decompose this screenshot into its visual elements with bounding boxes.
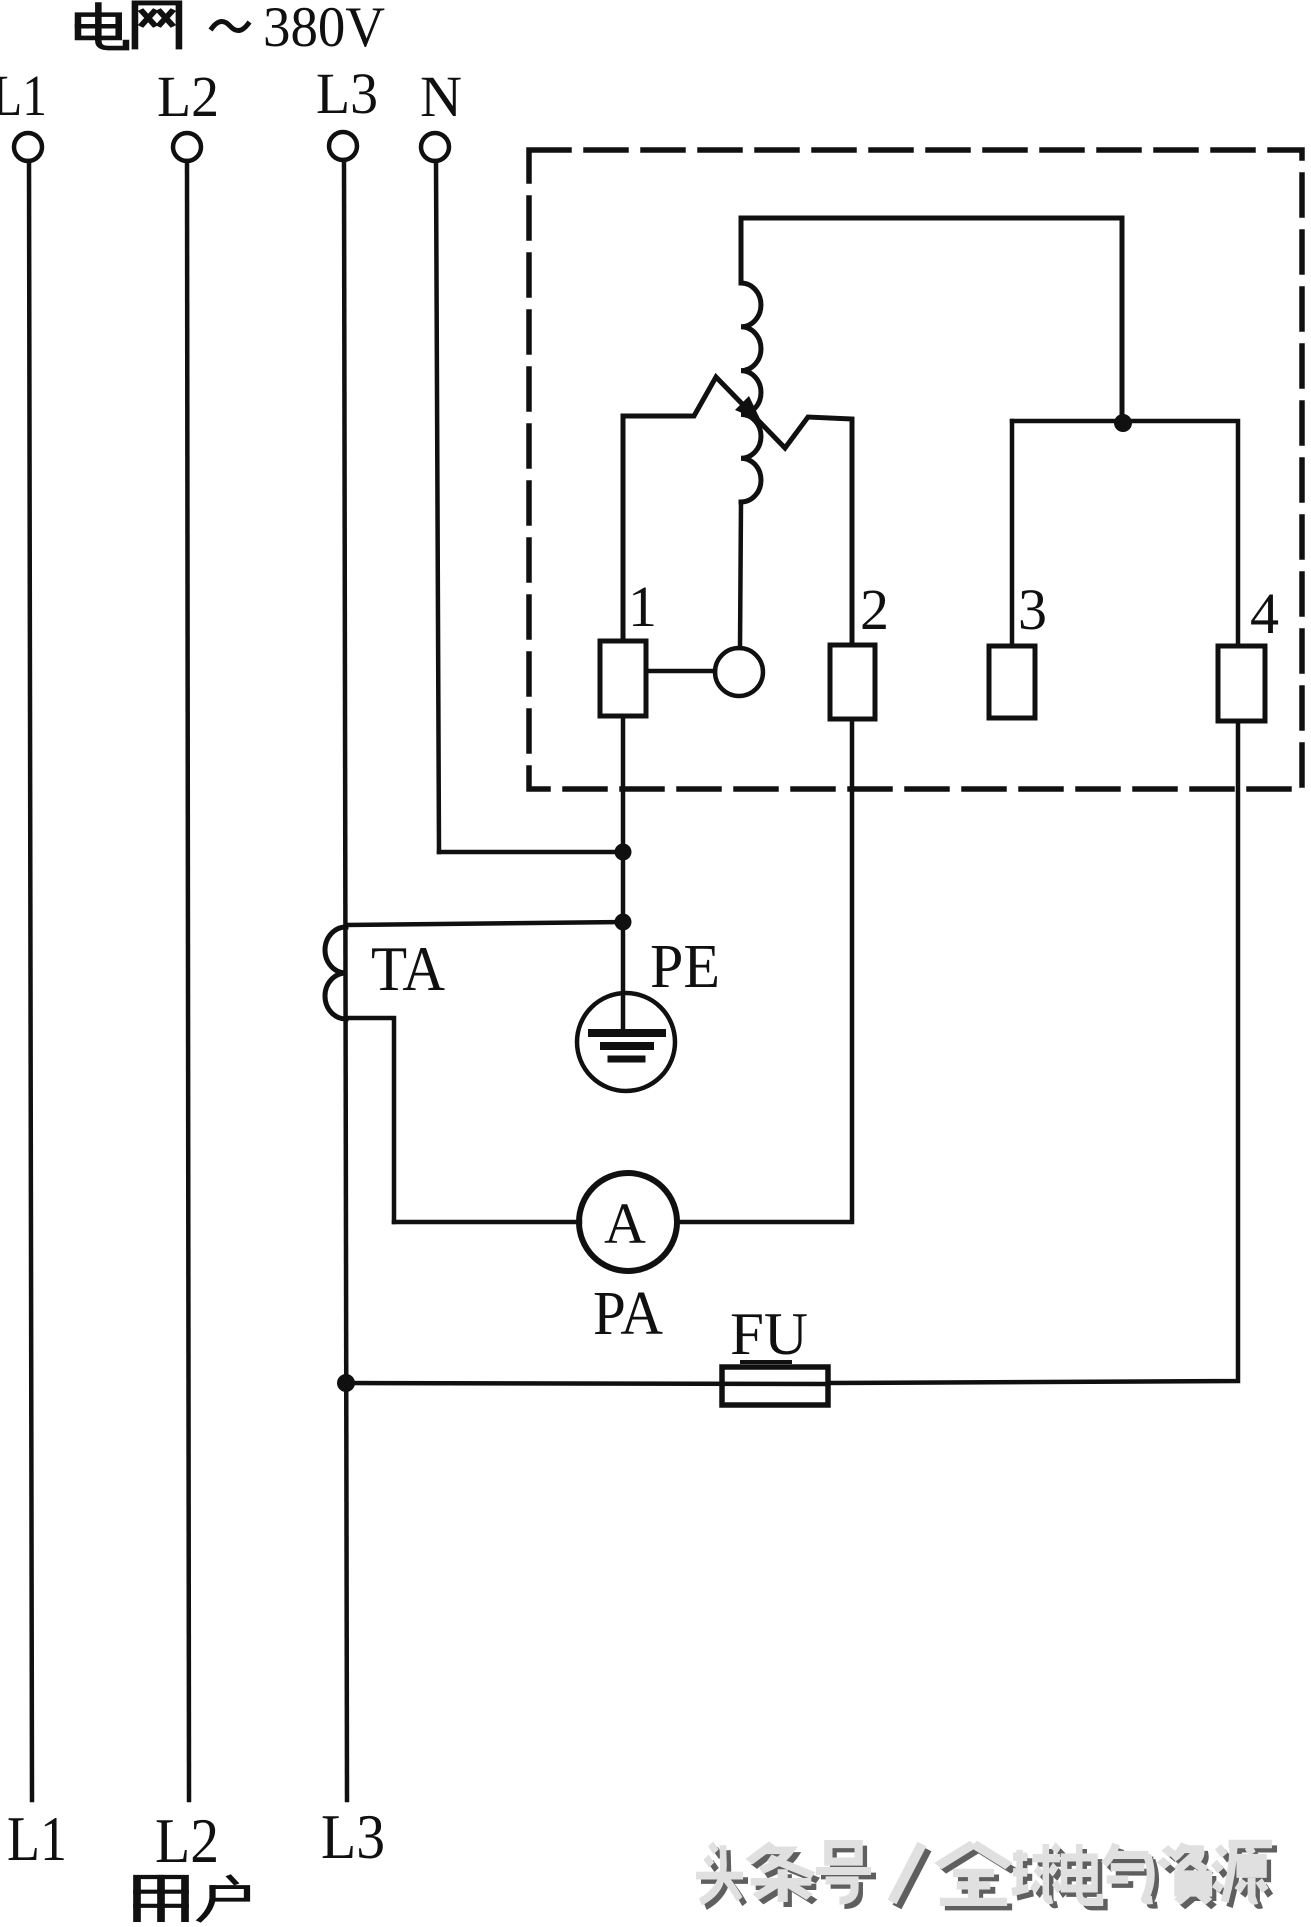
wire coil to wiper circle: [740, 502, 741, 648]
wire TA to ammeter: [394, 1220, 580, 1225]
wire terminal1 to tap arrow: [623, 377, 852, 645]
wire N vertical: [436, 161, 439, 852]
current transformer TA winding: [325, 927, 346, 1019]
terminal 4: [1218, 646, 1265, 721]
terminal circle L2: [173, 133, 201, 161]
wire fuse to terminal4: [828, 721, 1238, 1383]
svg-text:L1: L1: [0, 63, 47, 128]
svg-text:3: 3: [1018, 577, 1047, 642]
svg-text:L1: L1: [7, 1803, 67, 1874]
tap arrow head: [735, 396, 761, 421]
wire terminal1 down to PE: [621, 716, 626, 1030]
wire top inner horizontal: [741, 218, 1122, 424]
svg-text:1: 1: [628, 574, 657, 639]
fuse FU: [722, 1362, 828, 1405]
svg-text:L3: L3: [321, 1801, 385, 1872]
dashed enclosure box: [529, 150, 1302, 789]
svg-text:L3: L3: [316, 61, 378, 126]
protective earth PE symbol: [577, 993, 675, 1091]
terminal circle L3: [329, 132, 357, 160]
inductor coil T: [741, 283, 761, 502]
wire L1 vertical: [29, 161, 32, 1800]
svg-text:N: N: [420, 64, 462, 129]
wire TA bottom lead: [346, 1018, 394, 1222]
wire L3 vertical: [344, 160, 347, 1800]
junction node top: [1114, 414, 1132, 432]
wire terminal3 riser: [1010, 421, 1015, 646]
wire wiper to terminal1: [646, 669, 715, 674]
svg-text:TA: TA: [371, 933, 445, 1004]
terminal circle N: [421, 133, 449, 161]
wire terminals 3-4 top horizontal: [1012, 421, 1238, 646]
terminal 2: [830, 645, 875, 719]
svg-text:380V: 380V: [263, 0, 385, 59]
wire L3 to fuse: [346, 1383, 828, 1384]
svg-text:PA: PA: [593, 1280, 663, 1348]
junction node N: [615, 844, 632, 861]
label ~380V: [212, 0, 385, 59]
wire N to node: [439, 850, 623, 855]
terminal 3: [989, 646, 1035, 718]
watermark 头条号 / 全球电气资源: [696, 1844, 1277, 1907]
label 用户 (user): [137, 1877, 247, 1920]
wire TA top lead: [346, 922, 623, 925]
ammeter PA: [579, 1173, 677, 1271]
svg-text:L2: L2: [155, 1805, 219, 1876]
svg-text:PE: PE: [650, 933, 720, 1001]
junction node TA top: [615, 914, 632, 931]
svg-text:A: A: [604, 1191, 646, 1256]
wire L2 vertical: [187, 161, 189, 1800]
terminal 1: [600, 641, 646, 716]
terminal circle L1: [14, 133, 42, 161]
junction node L3 fuse: [337, 1374, 355, 1392]
svg-text:FU: FU: [730, 1301, 808, 1367]
wiper circle: [715, 648, 763, 696]
svg-text:2: 2: [860, 577, 889, 642]
svg-text:L2: L2: [157, 64, 219, 129]
label 电网 (grid): [78, 3, 179, 48]
svg-text:4: 4: [1250, 581, 1279, 646]
wire ammeter to terminal2: [677, 719, 852, 1222]
